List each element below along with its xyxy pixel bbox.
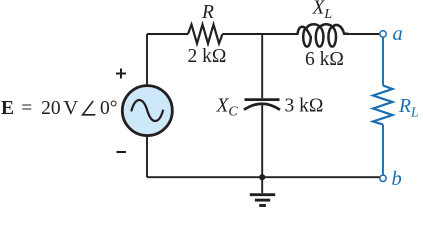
capacitor XC curved plate	[244, 104, 280, 110]
source sine wave	[132, 100, 164, 121]
svg-text:2 kΩ: 2 kΩ	[188, 46, 227, 67]
terminal a circle	[380, 31, 386, 37]
svg-text:0°: 0°	[100, 98, 118, 119]
terminal b circle	[380, 175, 386, 181]
inductor XL coil	[298, 24, 348, 46]
svg-text:XC: XC	[216, 96, 239, 120]
wire top middle	[223, 33, 298, 35]
svg-text:R: R	[201, 2, 214, 23]
svg-text:=: =	[21, 98, 32, 119]
resistor R	[188, 25, 223, 44]
capacitor XC top plate	[245, 98, 280, 101]
wire capacitor bottom	[261, 105, 263, 177]
ground bar 2	[255, 199, 270, 202]
wire blue right upper	[382, 37, 384, 85]
ground bar 1	[250, 193, 275, 196]
wire left vertical lower	[146, 136, 148, 177]
junction dot bottom	[259, 174, 265, 180]
svg-text:RL: RL	[398, 96, 419, 121]
svg-text:a: a	[393, 23, 403, 45]
wire left vertical upper	[146, 34, 148, 85]
svg-text:3 kΩ: 3 kΩ	[285, 96, 324, 117]
wire top right to terminal a	[348, 33, 380, 35]
resistor RL	[373, 86, 393, 125]
plus sign	[116, 69, 126, 79]
wire top left horizontal	[147, 33, 188, 35]
minus sign	[117, 151, 127, 153]
svg-text:20: 20	[41, 98, 61, 119]
source E circle	[122, 86, 172, 136]
angle symbol	[83, 101, 96, 115]
ground bar 3	[259, 204, 266, 207]
svg-text:b: b	[392, 168, 402, 190]
wire blue right lower	[382, 125, 384, 176]
svg-text:6 kΩ: 6 kΩ	[305, 49, 344, 70]
wire bottom horizontal	[147, 176, 380, 178]
svg-text:E: E	[1, 98, 14, 119]
ground stub	[261, 177, 263, 193]
wire capacitor top	[261, 34, 263, 98]
svg-text:V: V	[63, 97, 78, 119]
svg-text:XL: XL	[312, 0, 333, 22]
